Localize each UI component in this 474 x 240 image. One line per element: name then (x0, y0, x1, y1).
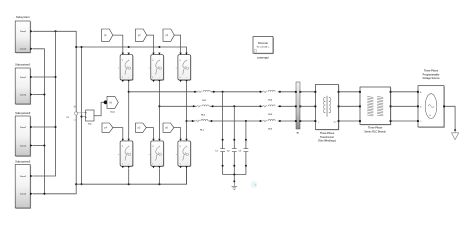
node port dots of RL5 (259, 105, 261, 107)
port Conn1 arrow of Subsystem (30, 30, 33, 33)
from tag F3 (gate signal leg3 upper) (163, 29, 174, 41)
svg-text:Conn2: Conn2 (20, 94, 27, 96)
node port dots of RL3 (192, 120, 194, 122)
wire phase B line y=106.3 (159, 105, 296, 107)
svg-text:Conn1: Conn1 (20, 31, 27, 33)
node junction cap bus center (233, 173, 235, 175)
from tag F1 (gate signal leg1 upper) (102, 29, 113, 41)
goto tag Vdc (107, 96, 118, 113)
svg-text:g: g (122, 146, 123, 148)
resistor-inductor branch RL6 on phase C (263, 120, 278, 131)
measurement bus bar B1 (296, 82, 300, 134)
port squares of transformer at y=106.3 (314, 105, 316, 107)
node port dots of RL4 (259, 91, 261, 93)
wire DC link leg C: upper bridge bottom to lower bridge top (186, 82, 188, 139)
port squares of B1 at y=91.8 (295, 91, 297, 93)
node junction phase C tap (186.5,121.0) (185, 120, 187, 122)
resistor-inductor branch RL3 on phase C (195, 120, 208, 132)
svg-text:Conn2: Conn2 (20, 49, 27, 51)
node junction top bus / leg B (158, 46, 160, 48)
svg-text:Conn2: Conn2 (20, 145, 27, 147)
wire RLC branch to voltage source at y=91.8 (391, 91, 419, 93)
wire F4 to gate of lower bridge 1 (113, 128, 123, 139)
port Conn1 arrow of Subsystem2 (30, 126, 33, 129)
svg-text:g: g (152, 59, 153, 61)
svg-text:g: g (152, 146, 153, 148)
decorative-ish annotation: faint cyan mark (kept as node C marker) (251, 181, 257, 189)
node junction at (55.5,77) (54, 76, 56, 78)
svg-text:1: 1 (122, 77, 123, 79)
capacitor C2 branch (227, 106, 237, 174)
wire lower bridge B bottom to DC- bus (158, 168, 160, 184)
wire F2 to gate of upper bridge 2 (147, 35, 154, 52)
wire V1 output to Vab block input1 (76, 112, 85, 114)
svg-text:(Two Windings): (Two Windings) (318, 140, 336, 143)
wire RLC branch to voltage source at y=106.3 (391, 105, 419, 107)
port arrows of L2 (gate top, dc top, out bottom, aux bottom) (152, 139, 160, 169)
svg-text:Three-Phase: Three-Phase (320, 132, 335, 135)
wire phase C line y=121.0 (187, 120, 297, 122)
svg-text:1: 1 (152, 77, 153, 79)
svg-text:Conn1: Conn1 (20, 77, 27, 79)
resistor-inductor branch RL4 on phase A (263, 90, 278, 101)
svg-text:Subsystem1: Subsystem1 (15, 62, 31, 66)
three-phase series RLC branch block (360, 87, 391, 133)
wire B1 to transformer at y=121.0 (300, 120, 315, 122)
node port dot above right ground (454, 129, 456, 131)
subsystem Subsystem (PV source 1) (15, 15, 31, 53)
port Conn2 arrow of Subsystem3 (30, 193, 33, 196)
wire F3 to gate of upper bridge 3 (174, 35, 180, 52)
node junction (159.4,184.2) (158, 183, 160, 185)
wire RLC branch to voltage source at y=121.0 (391, 120, 419, 122)
wire phase A line y=91.8 (129, 91, 296, 93)
from tag F6 (gate signal leg3 lower) (163, 123, 174, 132)
node junction capacitor tap on phase B (233, 105, 235, 107)
svg-text:g: g (122, 59, 123, 61)
IGBT half-bridge L3 (176, 141, 192, 167)
wire Vab block output to Goto tag (94, 102, 105, 115)
node port dots of RL6 (259, 120, 261, 122)
port arrows of U1 (gate top, dc top, out bottom, aux bottom) (122, 53, 130, 83)
node port dots of C3 (245, 139, 247, 141)
svg-text:Programmable: Programmable (423, 73, 440, 76)
wire lower bridge C bottom to DC- bus (186, 168, 188, 184)
svg-text:s: s (118, 68, 119, 70)
node junction (81.5,116.6) (80, 116, 82, 118)
svg-text:abc: abc (334, 122, 337, 124)
port squares of RLC branch at y=106.3 (359, 105, 361, 107)
from tag F4 (gate signal leg1 lower) (102, 123, 113, 132)
block Vab measurement subsystem (85, 110, 94, 125)
IGBT half-bridge L1 (118, 141, 134, 167)
wire lower bridge A bottom to DC- bus (128, 168, 130, 184)
wire capacitor bank common bus (223, 174, 246, 176)
wire auxiliary rail x=81.5 (81, 47, 83, 184)
node port dots of RL1 (194, 91, 196, 93)
wire Subsystem.Conn2 down rail x=44.4 (33, 49, 45, 194)
voltage measurement V1 minus tick (74, 119, 77, 121)
svg-text:Subsystem: Subsystem (16, 15, 30, 19)
node port dots of C1 (222, 139, 224, 141)
svg-text:Voltage Source: Voltage Source (422, 77, 440, 80)
IGBT half-bridge U3 (176, 55, 192, 81)
wire Subsystem1.Conn2 to rail x=44.4 (33, 94, 45, 96)
svg-text:g: g (180, 59, 181, 61)
port arrows of L3 (gate top, dc top, out bottom, aux bottom) (179, 139, 187, 169)
svg-text:Series RLC Branch: Series RLC Branch (364, 130, 386, 133)
wire DC link leg B: upper bridge bottom to lower bridge top (158, 82, 160, 139)
svg-text:Conn1: Conn1 (20, 127, 27, 129)
svg-text:s: s (118, 154, 119, 156)
IGBT half-bridge U1 (118, 55, 134, 81)
svg-text:g: g (180, 146, 181, 148)
node port dots of C2 (233, 139, 235, 141)
svg-text:Three-Phase: Three-Phase (424, 70, 439, 73)
port squares of RLC branch at y=121.0 (359, 120, 361, 122)
svg-text:1: 1 (180, 163, 181, 165)
node junction (81.5,184.2) (80, 183, 82, 185)
svg-text:Subsystem2: Subsystem2 (15, 111, 31, 115)
node junction top bus / leg A (128, 46, 130, 48)
wire B1 to transformer at y=106.3 (300, 105, 315, 107)
svg-text:powergui: powergui (257, 55, 269, 59)
wire Subsystem2.Conn2 to rail x=44.4 (33, 145, 45, 147)
port Conn2 arrow of Subsystem2 (30, 144, 33, 147)
wire transformer to RLC branch at y=91.8 (339, 91, 361, 93)
wire F6 to gate of lower bridge 3 (174, 128, 181, 139)
resistor-inductor branch RL2 on phase B (197, 105, 210, 117)
powergui block (253, 37, 274, 60)
port squares of RLC branch at y=91.8 (359, 91, 361, 93)
wire Subsystem2.Conn1 to rail x=55.5 (33, 126, 56, 128)
wire transformer to RLC branch at y=121.0 (339, 120, 361, 122)
node junction at (44.4,193.8) (43, 193, 45, 195)
port Conn2 arrow of Subsystem1 (30, 93, 33, 96)
from tag F5 (gate signal leg2 lower) (135, 123, 146, 132)
wire Subsystem3.Conn2 to DC- bus (33, 184, 76, 194)
wire aux rail to Vab block input2 (82, 116, 86, 119)
node arrowhead at Goto input (104, 100, 108, 104)
node port dots of RL2 (193, 105, 195, 107)
wire F1 to gate of upper bridge 1 (113, 35, 123, 52)
port Conn2 arrow of Subsystem (30, 48, 33, 51)
from tag F2 (gate signal leg2 upper) (135, 29, 146, 41)
port Conn1 arrow of Subsystem3 (30, 175, 33, 178)
node junction (76.2,184.2) DC- bus left end (75, 183, 77, 185)
subsystem Subsystem2 (PV source 3) (15, 111, 31, 157)
node junction (81.5,47) (80, 46, 82, 48)
port square voltage source neutral output (443, 105, 445, 107)
node port dot above ground (233, 180, 235, 182)
wire top DC bus y=47 (76, 47, 186, 55)
port square of voltage source at y=91.8 (417, 91, 419, 93)
ground symbol (voltage source neutral) (452, 130, 459, 140)
node junction at (44.4,145.5) (43, 144, 45, 146)
svg-text:s: s (176, 68, 177, 70)
three-phase programmable voltage source block (418, 70, 445, 128)
port squares of B1 at y=121.0 (295, 120, 297, 122)
wire cap bus to ground (233, 175, 235, 182)
voltage measurement V1 plus tick on DC+ rail (74, 106, 77, 109)
IGBT half-bridge U2 (149, 55, 165, 81)
port square of voltage source at y=106.3 (417, 105, 419, 107)
node junction phase A tap (128.7,91.8) (128, 91, 130, 93)
svg-text:Transformer: Transformer (320, 136, 334, 139)
wire F5 to gate of lower bridge 2 (146, 128, 153, 139)
svg-text:Subsystem3: Subsystem3 (15, 160, 31, 164)
subsystem Subsystem1 (PV source 2) (15, 62, 31, 105)
port arrows of U3 (gate top, dc top, out bottom, aux bottom) (179, 53, 187, 83)
port squares of transformer at y=91.8 (314, 91, 316, 93)
node junction at (44.4,94.5) (43, 93, 45, 95)
wire DC link leg A: upper bridge bottom to lower bridge top (128, 82, 130, 139)
node junction (128.7,184.2) (128, 183, 130, 185)
port square of voltage source at y=121.0 (417, 120, 419, 122)
wire B1 to transformer at y=91.8 (300, 91, 315, 93)
svg-text:s: s (149, 68, 150, 70)
node junction phase B tap (159.4,106.3) (158, 105, 160, 107)
resistor-inductor branch RL5 on phase B (263, 105, 278, 116)
node junction at (55.5,127) (54, 126, 56, 128)
port squares of transformer at y=121.0 (314, 120, 316, 122)
IGBT half-bridge L2 (149, 141, 165, 167)
subsystem Subsystem3 (PV source 4) (15, 160, 31, 209)
port Conn1 arrow of Subsystem1 (30, 76, 33, 79)
node junction capacitor tap on phase A (222, 91, 224, 93)
wire rail x=55.5 down to Subsystem3.Conn1 (33, 31, 56, 176)
svg-text:Goto: Goto (110, 110, 116, 113)
svg-text:1: 1 (122, 163, 123, 165)
svg-text:Conn1: Conn1 (20, 176, 27, 178)
node junction Subsystem.Conn1 / mid rail x=55.5 (54, 30, 56, 32)
wire Subsystem1.Conn1 to rail x=55.5 (33, 76, 56, 78)
node junction capacitor tap on phase C (245, 120, 247, 122)
svg-text:1: 1 (180, 77, 181, 79)
svg-text:Discrete: Discrete (258, 42, 268, 45)
capacitor C3 branch (239, 121, 249, 175)
resistor-inductor branch RL1 on phase A (198, 90, 211, 102)
node junction bus start (76.2,47) (75, 46, 77, 48)
ground symbol (capacitor bank) (232, 181, 238, 189)
three-phase transformer (two windings) block (315, 85, 339, 143)
port arrows of L1 (gate top, dc top, out bottom, aux bottom) (122, 139, 130, 169)
port squares of B1 at y=106.3 (295, 105, 297, 107)
wire bottom DC- bus y=184.2 (76, 167, 186, 184)
capacitor C1 branch (215, 92, 225, 175)
svg-text:Conn2: Conn2 (20, 194, 27, 196)
wire transformer to RLC branch at y=106.3 (339, 105, 361, 107)
svg-text:Ts = 2e-05 s.: Ts = 2e-05 s. (257, 47, 270, 49)
wire voltage source neutral to ground (445, 106, 455, 130)
svg-text:1: 1 (152, 163, 153, 165)
wire Subsystem.Conn1 to DC+ rail (y=31.3) (33, 31, 76, 184)
svg-text:Three-Phase: Three-Phase (368, 127, 383, 130)
svg-text:s: s (176, 154, 177, 156)
voltage measurement V1 circle (75, 112, 78, 115)
svg-text:s: s (149, 154, 150, 156)
port arrows of U2 (gate top, dc top, out bottom, aux bottom) (152, 53, 160, 83)
